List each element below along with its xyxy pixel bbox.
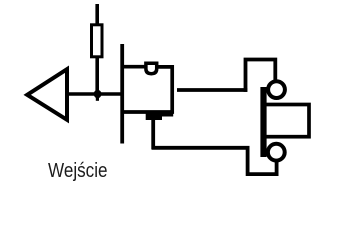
anode cap socket on U1 (146, 63, 157, 73)
device U1 body top-right and right and bottom edges (121, 67, 173, 112)
wire: up-and-over to earphone upper terminal (246, 60, 276, 92)
resistor R1 (92, 25, 103, 57)
earphone lower terminal circle (268, 144, 285, 161)
input buffer triangle (Wejście arrow) (27, 69, 67, 120)
earphone upper terminal circle (268, 81, 285, 98)
device U1 body top-left edge (121, 65, 147, 69)
cathode plate under U1 (146, 113, 174, 120)
wire: supply rail above resistor R1 (95, 4, 99, 26)
earphone membrane bar (260, 87, 266, 157)
device U1 gate bar (left vertical line) (120, 44, 124, 144)
node A junction dot (94, 90, 102, 99)
earphone body rectangle (264, 105, 309, 137)
wire: resistor R1 to input node (95, 57, 99, 93)
wire: bottom return path to earphone lower terminal (152, 148, 277, 174)
wire: triangle output to device gate (67, 92, 122, 96)
wire: U1 output to the right (177, 88, 247, 92)
svg-text:Wejście: Wejście (48, 160, 108, 182)
wire: cathode plate down (151, 118, 155, 149)
wire stub below node A (96, 94, 99, 101)
